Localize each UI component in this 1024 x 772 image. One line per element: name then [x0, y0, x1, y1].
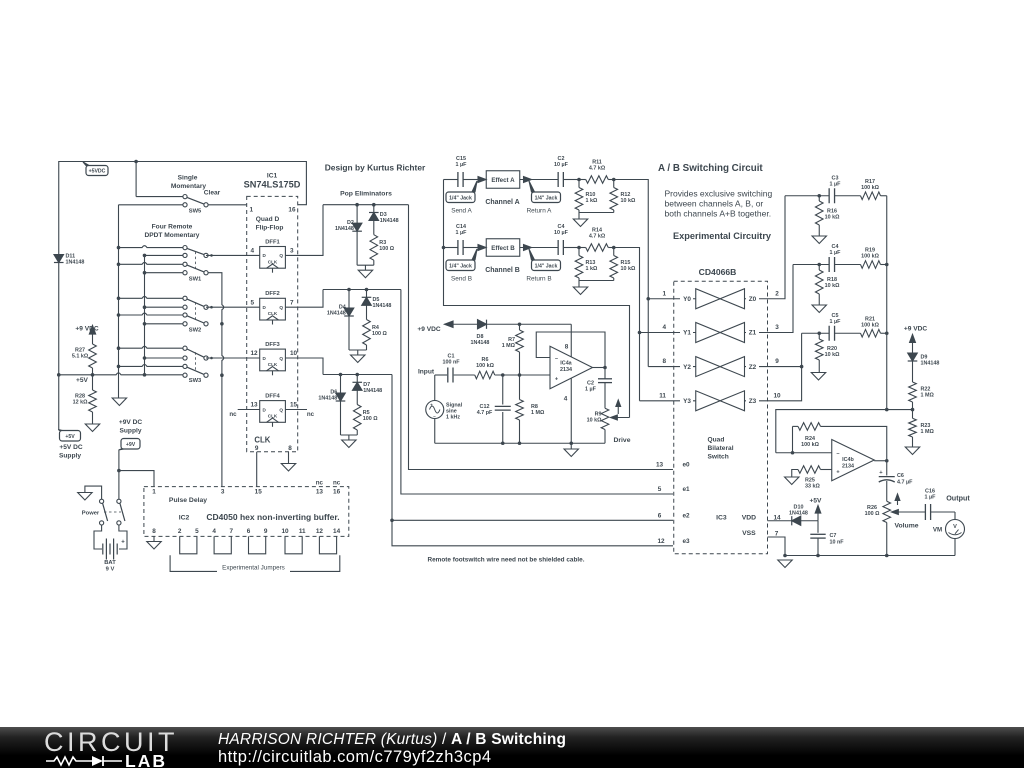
- diode D3: [369, 205, 399, 224]
- logo diode symbol: [92, 756, 103, 766]
- wire +5V rail: [59, 373, 183, 375]
- svg-text:Flip-Flop: Flip-Flop: [256, 225, 284, 232]
- wire bus A (switch common ground bus): [118, 205, 120, 398]
- wire Z2 output: [745, 333, 802, 366]
- wire +9V to power switch and IC2 pin 1: [118, 450, 120, 499]
- svg-text:10 nF: 10 nF: [830, 539, 845, 545]
- op-amp IC4a 2134: [550, 343, 593, 402]
- svg-text:−: −: [555, 356, 558, 362]
- svg-text:Switch: Switch: [708, 454, 729, 461]
- ground R28: [85, 424, 99, 432]
- svg-text:11: 11: [299, 528, 306, 535]
- svg-text:nc: nc: [316, 480, 324, 487]
- text IC3 VDD VSS labels: [716, 515, 781, 538]
- ground IC2 pin 8: [147, 536, 161, 549]
- wire channel B to Y1 and Y3: [614, 248, 640, 401]
- svg-text:Single: Single: [178, 174, 198, 181]
- wire IC4b output: [874, 460, 887, 462]
- svg-text:1 µF: 1 µF: [830, 250, 842, 256]
- diode D9: [908, 353, 940, 367]
- svg-text:10 kΩ: 10 kΩ: [621, 198, 636, 204]
- svg-text:1 MΩ: 1 MΩ: [502, 343, 516, 349]
- svg-text:Power: Power: [82, 510, 100, 516]
- svg-text:3: 3: [775, 324, 779, 331]
- resistor R13: [575, 248, 598, 281]
- wire Z1 output: [745, 265, 794, 333]
- wire Y1 input: [640, 332, 696, 334]
- wire +9VDC to op-amp pin 8: [445, 323, 572, 325]
- svg-text:Z1: Z1: [749, 330, 757, 337]
- wire IC4a pin 4: [570, 378, 572, 443]
- svg-text:Output: Output: [946, 493, 970, 502]
- svg-text:10 µF: 10 µF: [554, 162, 569, 168]
- svg-text:SW3: SW3: [189, 378, 202, 384]
- wire R13 R15 bottom join channel B: [579, 280, 614, 282]
- svg-text:SN74LS175D: SN74LS175D: [244, 179, 301, 189]
- svg-text:1/4" Jack: 1/4" Jack: [449, 195, 472, 201]
- ground pop block R3: [358, 270, 372, 278]
- wire IC4b minus input: [776, 452, 832, 454]
- svg-text:+5V: +5V: [810, 497, 823, 504]
- svg-text:CLK: CLK: [254, 436, 270, 445]
- svg-text:Volume: Volume: [894, 522, 918, 529]
- resistor R14: [579, 227, 614, 251]
- svg-text:1N4148: 1N4148: [335, 226, 354, 232]
- svg-text:1 kHz: 1 kHz: [446, 414, 460, 420]
- svg-text:4.7 pF: 4.7 pF: [477, 410, 493, 416]
- junction momentary bus SW2: [220, 322, 224, 326]
- svg-text:1N4148: 1N4148: [380, 218, 399, 224]
- resistor R3: [370, 221, 395, 266]
- svg-text:CLK: CLK: [268, 311, 278, 316]
- wire IC4a feedback: [536, 332, 605, 368]
- svg-text:Pop Eliminators: Pop Eliminators: [340, 190, 392, 197]
- wire Y0 input: [648, 298, 696, 300]
- wire pop block R4 bottom: [349, 349, 367, 351]
- ground pop block R5: [342, 440, 356, 448]
- svg-text:8: 8: [662, 358, 666, 365]
- wire DFF Q to pop block R5: [285, 358, 323, 375]
- svg-text:4: 4: [212, 528, 216, 535]
- text Quad Bilateral Switch: [708, 437, 734, 461]
- svg-text:15: 15: [290, 402, 298, 409]
- svg-text:1N4148: 1N4148: [66, 260, 85, 266]
- svg-text:Y2: Y2: [683, 364, 691, 371]
- svg-text:DPDT Momentary: DPDT Momentary: [145, 232, 200, 239]
- svg-text:3: 3: [290, 248, 294, 255]
- node return A jack: [527, 181, 561, 214]
- svg-text:100 Ω: 100 Ω: [865, 511, 880, 517]
- capacitor C12: [477, 375, 511, 443]
- svg-text:2: 2: [775, 290, 779, 297]
- wire channel A to Y0: [614, 180, 649, 367]
- capacitor C5: [829, 313, 860, 341]
- node +5V flag: [58, 430, 83, 460]
- node +5V arrow: [801, 497, 822, 520]
- svg-text:1N4148: 1N4148: [327, 311, 346, 317]
- svg-text:Drive: Drive: [613, 437, 630, 444]
- svg-text:7: 7: [290, 299, 294, 306]
- svg-text:2134: 2134: [842, 463, 854, 469]
- svg-text:10: 10: [773, 392, 781, 399]
- svg-text:C7: C7: [830, 533, 837, 539]
- wire pop block R5 top line: [323, 374, 392, 376]
- svg-text:Q: Q: [279, 356, 283, 361]
- ground power switch: [78, 493, 92, 501]
- wire pop block R3 top line: [323, 204, 409, 206]
- svg-text:both channels A+B together.: both channels A+B together.: [665, 209, 772, 219]
- svg-text:Return B: Return B: [526, 275, 551, 282]
- svg-text:10 kΩ: 10 kΩ: [587, 417, 602, 423]
- capacitor C4 channel B: [554, 224, 579, 255]
- svg-text:nc: nc: [229, 411, 237, 418]
- resistor R10: [575, 180, 598, 213]
- wire momentary bus to IC2 pin 3: [206, 273, 224, 487]
- svg-text:10 kΩ: 10 kΩ: [825, 283, 840, 289]
- svg-text:Effect A: Effect A: [491, 177, 515, 184]
- svg-text:C6: C6: [897, 473, 904, 479]
- ground IC1 pin 8: [281, 452, 295, 471]
- node send B jack: [446, 249, 477, 282]
- svg-text:6: 6: [658, 512, 662, 519]
- wire DFF Q to pop block R4: [285, 290, 323, 308]
- signal source sine 1 kHz: [426, 375, 463, 443]
- resistor R25: [792, 466, 832, 490]
- svg-text:Bilateral: Bilateral: [708, 445, 734, 452]
- svg-text:e0: e0: [682, 462, 690, 469]
- wire IC4a pin 8: [570, 324, 572, 356]
- switch bilateral Y0/Z0: [662, 289, 779, 309]
- switch SW1: [117, 246, 208, 283]
- wire C5 row: [802, 332, 830, 334]
- wire DFF Q to pop block R3: [285, 205, 323, 256]
- svg-text:4.7 kΩ: 4.7 kΩ: [589, 165, 606, 171]
- svg-text:100 Ω: 100 Ω: [363, 416, 378, 422]
- capacitor C14: [444, 224, 480, 255]
- svg-text:4: 4: [251, 248, 255, 255]
- svg-text:13: 13: [316, 489, 324, 496]
- flip-flop DFF3: [251, 342, 298, 375]
- svg-text:7: 7: [230, 528, 234, 535]
- svg-text:CD4066B: CD4066B: [699, 267, 737, 277]
- wire C3 row: [785, 195, 829, 197]
- svg-text:100 Ω: 100 Ω: [372, 331, 387, 337]
- wire SW2 output to DFF2 D: [206, 306, 260, 308]
- svg-text:100 kΩ: 100 kΩ: [861, 322, 879, 328]
- svg-text:+9V DC: +9V DC: [119, 419, 143, 426]
- svg-text:9 V: 9 V: [106, 566, 115, 572]
- svg-text:8: 8: [288, 445, 292, 452]
- svg-text:16: 16: [288, 206, 296, 213]
- svg-text:1: 1: [152, 489, 156, 496]
- wire Effect A to C2: [520, 179, 558, 181]
- svg-text:IC2: IC2: [179, 515, 190, 522]
- svg-text:Z2: Z2: [749, 364, 757, 371]
- resistor R12: [610, 180, 636, 213]
- svg-text:Effect B: Effect B: [491, 245, 515, 252]
- svg-text:Channel B: Channel B: [485, 267, 520, 274]
- svg-text:1/4" Jack: 1/4" Jack: [449, 263, 472, 269]
- svg-text:14: 14: [333, 528, 341, 535]
- svg-text:1: 1: [662, 290, 666, 297]
- ground R20: [811, 373, 825, 381]
- IC3 CD4066B outline: [674, 281, 768, 554]
- svg-text:+5VDC: +5VDC: [89, 169, 106, 175]
- diode D6: [318, 375, 345, 436]
- wire Y2 input: [648, 366, 696, 368]
- svg-text:12 kΩ: 12 kΩ: [73, 400, 88, 406]
- svg-text:Quad D: Quad D: [256, 216, 280, 223]
- svg-text:Return A: Return A: [527, 207, 553, 214]
- ground R18: [812, 305, 826, 313]
- svg-text:Z3: Z3: [749, 398, 757, 405]
- capacitor C6: [879, 461, 913, 502]
- svg-text:1/4" Jack: 1/4" Jack: [535, 263, 558, 269]
- svg-text:A / B Switching Circuit: A / B Switching Circuit: [658, 163, 763, 174]
- ground bus A: [112, 398, 126, 406]
- svg-text:IC3: IC3: [716, 515, 727, 522]
- svg-text:IC4a: IC4a: [560, 360, 572, 366]
- svg-text:1 MΩ: 1 MΩ: [921, 429, 935, 435]
- svg-text:33 kΩ: 33 kΩ: [805, 483, 820, 489]
- wire summing vertical: [886, 196, 888, 410]
- svg-text:Pulse Delay: Pulse Delay: [169, 497, 207, 504]
- text IC2 bottom pin numbers: [152, 528, 340, 535]
- svg-text:between channels A, B, or: between channels A, B, or: [665, 199, 764, 209]
- svg-text:Four Remote: Four Remote: [152, 223, 193, 230]
- node Effect B: [486, 239, 520, 257]
- svg-text:Y1: Y1: [683, 330, 691, 337]
- svg-text:CLK: CLK: [268, 362, 278, 367]
- wire VSS pin 7: [768, 537, 786, 556]
- svg-text:+: +: [121, 540, 125, 546]
- ground channel B divider: [573, 287, 587, 295]
- wire Z3 output: [745, 367, 802, 401]
- wire SW3 output to DFF3 D: [206, 357, 260, 359]
- text description paragraph: [665, 189, 773, 219]
- svg-text:13: 13: [656, 462, 664, 469]
- flip-flop DFF2: [251, 291, 295, 324]
- svg-text:1 µF: 1 µF: [925, 494, 937, 500]
- svg-text:BAT: BAT: [104, 560, 116, 566]
- svg-text:IC4b: IC4b: [842, 457, 854, 463]
- svg-text:Send A: Send A: [451, 207, 472, 214]
- capacitor C2 channel A: [554, 156, 579, 187]
- wire bus B: [144, 255, 146, 375]
- svg-text:Supply: Supply: [59, 453, 81, 460]
- svg-text:12: 12: [657, 538, 665, 545]
- junction momentary bus SW3: [220, 373, 224, 377]
- svg-text:Y0: Y0: [683, 296, 691, 303]
- svg-text:+9 VDC: +9 VDC: [75, 326, 99, 333]
- resistor R21: [861, 316, 887, 337]
- diode D5: [362, 290, 392, 309]
- svg-text:12: 12: [251, 350, 259, 357]
- resistor R22: [909, 361, 935, 410]
- wire Effect B to C4: [520, 247, 558, 249]
- svg-text:−: −: [836, 452, 839, 458]
- svg-text:V: V: [953, 524, 957, 530]
- svg-text:4: 4: [662, 324, 666, 331]
- svg-text:+9 VDC: +9 VDC: [417, 326, 441, 333]
- svg-text:DFF1: DFF1: [265, 239, 280, 245]
- wire pop block R3 bottom: [357, 264, 374, 266]
- resistor R26 potentiometer: [865, 494, 926, 556]
- svg-text:VSS: VSS: [742, 530, 756, 537]
- capacitor C4 mix: [829, 244, 860, 272]
- svg-text:1N4148: 1N4148: [471, 340, 490, 346]
- svg-text:−: −: [433, 414, 436, 419]
- svg-text:SW2: SW2: [189, 328, 202, 334]
- svg-text:9: 9: [255, 445, 259, 452]
- resistor R19: [861, 248, 887, 269]
- svg-text:Quad: Quad: [708, 437, 725, 444]
- switch Power: [82, 486, 125, 525]
- wire R10 R12 bottom join channel A: [579, 212, 614, 214]
- resistor R4: [363, 305, 388, 350]
- svg-text:nc: nc: [333, 480, 341, 487]
- battery BAT 9V: [94, 525, 127, 572]
- svg-text:Momentary: Momentary: [171, 183, 207, 190]
- footer bar: [0, 727, 1024, 768]
- wire channel send bus: [444, 180, 630, 418]
- resistor R8: [516, 375, 545, 443]
- wire IC4a output: [593, 367, 606, 369]
- capacitor C1: [442, 353, 474, 382]
- svg-text:100 kΩ: 100 kΩ: [801, 442, 819, 448]
- svg-text:15: 15: [255, 489, 263, 496]
- svg-text:+: +: [555, 377, 558, 383]
- svg-text:10 kΩ: 10 kΩ: [621, 266, 636, 272]
- switch bilateral Y2/Z2: [662, 357, 779, 377]
- svg-text:5: 5: [251, 299, 255, 306]
- wire VDD pin 14: [768, 520, 792, 522]
- ground R23: [905, 447, 919, 455]
- svg-text:11: 11: [659, 392, 666, 399]
- resistor R24 feedback: [793, 423, 887, 461]
- svg-text:1 MΩ: 1 MΩ: [531, 410, 545, 416]
- wire Z0 output: [745, 196, 786, 299]
- svg-text:Z0: Z0: [749, 296, 757, 303]
- resistor R11: [579, 159, 614, 183]
- wire summing node horizontal: [776, 410, 913, 453]
- switch SW5: [119, 174, 247, 214]
- switch SW2: [117, 296, 208, 334]
- svg-text:+5V: +5V: [76, 377, 89, 384]
- svg-text:VM: VM: [933, 526, 942, 533]
- svg-text:Clear: Clear: [204, 190, 221, 197]
- svg-text:Experimental Circuitry: Experimental Circuitry: [673, 231, 772, 241]
- ground channel A divider: [573, 219, 587, 227]
- svg-text:5.1 kΩ: 5.1 kΩ: [72, 354, 89, 360]
- wire pop block 3 to e2 and e3: [392, 375, 673, 546]
- node send A jack: [446, 181, 477, 214]
- svg-text:1 kΩ: 1 kΩ: [586, 266, 598, 272]
- resistor R20: [815, 333, 840, 372]
- capacitor C15: [444, 156, 480, 187]
- switch SW3: [117, 346, 208, 384]
- resistor R18: [815, 265, 840, 306]
- svg-text:100 Ω: 100 Ω: [379, 246, 394, 252]
- svg-text:10: 10: [281, 528, 289, 535]
- svg-text:9: 9: [264, 528, 268, 535]
- svg-text:4.7 kΩ: 4.7 kΩ: [589, 233, 606, 239]
- node return B jack: [526, 249, 560, 282]
- flip-flop DFF4: [251, 393, 298, 426]
- svg-text:3: 3: [221, 489, 225, 496]
- ground pop block R4: [351, 355, 365, 363]
- svg-text:100 kΩ: 100 kΩ: [861, 185, 879, 191]
- svg-text:4: 4: [564, 395, 568, 402]
- svg-text:DFF2: DFF2: [265, 291, 280, 297]
- resistor R5: [353, 390, 378, 435]
- svg-text:8: 8: [565, 343, 569, 350]
- svg-text:1/4" Jack: 1/4" Jack: [535, 195, 558, 201]
- wire output ground rail: [785, 555, 955, 557]
- wire arrow into Effect A: [478, 177, 486, 183]
- resistor R16: [815, 196, 840, 236]
- svg-text:SW1: SW1: [189, 277, 202, 283]
- svg-text:1N4148: 1N4148: [363, 388, 382, 394]
- svg-text:+: +: [836, 470, 839, 476]
- svg-text:e2: e2: [682, 512, 690, 519]
- svg-text:10 kΩ: 10 kΩ: [825, 352, 840, 358]
- svg-text:2: 2: [178, 528, 182, 535]
- IC1 SN74LS175D outline: [244, 173, 301, 452]
- wire DFF4 nc stubs: [238, 409, 260, 411]
- svg-text:+9 VDC: +9 VDC: [904, 326, 928, 333]
- node Effect A: [486, 171, 520, 189]
- voltmeter VM: [933, 512, 965, 556]
- svg-text:CLK: CLK: [268, 413, 278, 418]
- svg-text:4.7 µF: 4.7 µF: [897, 479, 913, 485]
- wire experimental jumpers: [180, 536, 337, 553]
- IC2 CD4050 outline: [144, 487, 349, 537]
- svg-text:1 µF: 1 µF: [456, 162, 468, 168]
- svg-text:Q: Q: [279, 407, 283, 412]
- wire +5VDC top rail: [59, 162, 307, 431]
- svg-text:1N4148: 1N4148: [789, 510, 808, 516]
- logo resistor symbol: [46, 757, 92, 765]
- svg-text:1: 1: [250, 206, 254, 213]
- node +9V flag: [119, 419, 143, 450]
- wire input chain: [435, 374, 447, 376]
- svg-text:SW5: SW5: [189, 209, 202, 215]
- svg-text:Design by Kurtus Richter: Design by Kurtus Richter: [325, 163, 426, 173]
- wire arrow into Effect B: [478, 245, 486, 251]
- wire pop block 1 to e0: [409, 205, 674, 470]
- svg-text:8: 8: [152, 528, 156, 535]
- diode D7: [352, 375, 382, 394]
- svg-text:nc: nc: [307, 411, 315, 418]
- svg-text:1 MΩ: 1 MΩ: [921, 393, 935, 399]
- wire pop block R5 bottom: [341, 434, 358, 436]
- svg-text:Send B: Send B: [451, 275, 472, 282]
- svg-text:+5V: +5V: [65, 434, 75, 440]
- svg-text:100 kΩ: 100 kΩ: [476, 363, 494, 369]
- svg-text:e3: e3: [682, 538, 690, 545]
- svg-text:1 µF: 1 µF: [585, 387, 597, 393]
- svg-text:10 kΩ: 10 kΩ: [825, 214, 840, 220]
- svg-text:1N4148: 1N4148: [373, 303, 392, 309]
- svg-text:Supply: Supply: [120, 428, 142, 435]
- ground IC4a rail: [564, 443, 578, 456]
- resistor R7: [502, 322, 524, 375]
- resistor R28: [73, 375, 97, 424]
- svg-text:5: 5: [658, 486, 662, 493]
- svg-text:Q: Q: [279, 253, 283, 258]
- diode D11: [54, 254, 84, 266]
